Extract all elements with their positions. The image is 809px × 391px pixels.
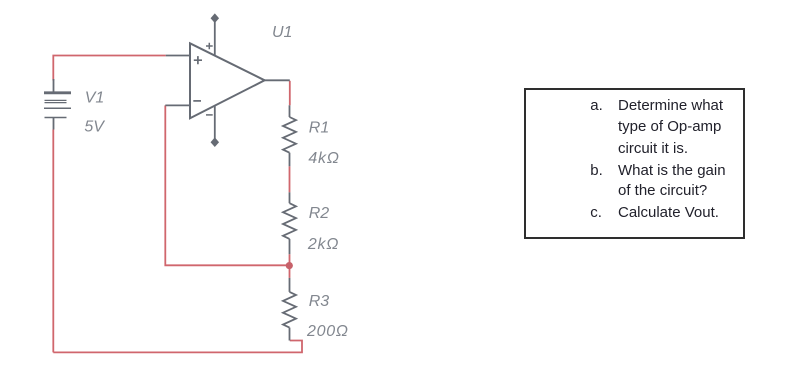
svg-text:4kΩ: 4kΩ <box>308 150 339 167</box>
positive supply pin <box>214 17 216 56</box>
output stub <box>265 79 290 81</box>
svg-text:200Ω: 200Ω <box>306 323 349 340</box>
svg-text:U1: U1 <box>272 24 292 41</box>
plus sign inside <box>194 56 202 64</box>
resistor R3 <box>283 278 296 341</box>
negative supply pin <box>214 106 216 143</box>
svg-text:R1: R1 <box>309 119 329 136</box>
resistor R2 <box>283 192 296 254</box>
resistor R1 <box>283 105 296 166</box>
wire R2 to junction node <box>289 254 291 265</box>
op-amp U1 <box>165 14 289 146</box>
wire top rail from battery to op-amp non-inverting input <box>53 56 165 81</box>
supply diamond top <box>211 14 218 22</box>
svg-text:V1: V1 <box>85 89 105 106</box>
supply plus sign <box>206 43 213 50</box>
wire output to R1 <box>289 81 291 106</box>
supply diamond bottom <box>211 138 218 146</box>
non-inverting input stub <box>166 55 190 57</box>
wire junction to R3 <box>289 265 291 278</box>
wire R1 to R2 <box>289 166 291 192</box>
inverting input stub <box>165 104 190 106</box>
question box <box>524 88 745 239</box>
svg-text:5V: 5V <box>84 119 105 136</box>
svg-text:R3: R3 <box>309 293 330 310</box>
battery V1 <box>44 79 71 130</box>
supply minus sign <box>206 114 213 116</box>
wire bottom rail <box>53 341 302 353</box>
svg-text:2kΩ: 2kΩ <box>307 236 339 253</box>
wire left rail battery negative to bottom rail <box>52 130 54 353</box>
minus sign inside <box>193 100 201 102</box>
svg-text:R2: R2 <box>309 205 330 222</box>
wire feedback from junction to inverting input <box>165 105 289 265</box>
node junction dot <box>286 262 293 269</box>
